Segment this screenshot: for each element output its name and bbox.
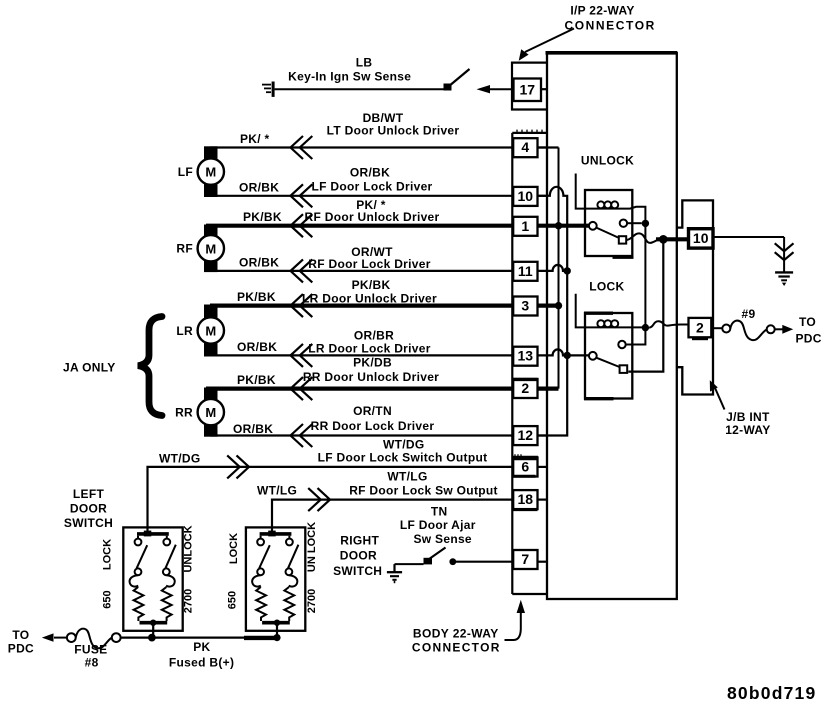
- chevrons wire pin11: [291, 259, 313, 282]
- svg-text:LT Door Unlock Driver: LT Door Unlock Driver: [327, 124, 460, 138]
- chevrons wire pin12: [291, 424, 313, 447]
- chevrons wire pin4: [291, 136, 313, 159]
- svg-text:WT/LG: WT/LG: [257, 484, 297, 498]
- right unlock hook: [289, 575, 298, 586]
- ground symbol door ajar: [387, 564, 402, 583]
- chevrons wire pin3: [291, 294, 313, 317]
- fuse #9: [730, 321, 766, 341]
- node LOCK coil junction: [642, 324, 649, 331]
- svg-text:650: 650: [227, 591, 239, 609]
- right door switch box: [246, 527, 305, 630]
- FUSE #8 label: [74, 643, 107, 670]
- svg-text:RF Door Unlock Driver: RF Door Unlock Driver: [305, 210, 440, 224]
- chevrons wire pin13: [291, 344, 313, 367]
- svg-text:TN: TN: [431, 505, 448, 519]
- pin box 2: [513, 379, 538, 398]
- svg-text:TO: TO: [799, 315, 816, 329]
- J/B pin box 2: [689, 318, 712, 339]
- right switch bottom bar: [262, 620, 290, 638]
- LEFT DOOR SWITCH label: [64, 487, 113, 530]
- svg-text:17: 17: [520, 81, 536, 97]
- chevrons wire pin10: [291, 184, 313, 207]
- fused B+ bottom wire: [121, 634, 281, 642]
- fuse #9 connector circle: [722, 325, 730, 333]
- svg-text:OR/BK: OR/BK: [239, 180, 279, 194]
- chevrons wire pin6: [227, 455, 249, 478]
- svg-text:6: 6: [521, 459, 529, 475]
- node pin3 on unlock bus: [555, 302, 562, 309]
- svg-text:2700: 2700: [306, 589, 318, 613]
- svg-text:PDC: PDC: [795, 332, 821, 346]
- resistor 2700 left: [162, 587, 172, 621]
- I/P 22-WAY CONNECTOR label: [564, 4, 656, 33]
- svg-text:TO: TO: [12, 628, 29, 642]
- J/B INT connector outline: [677, 200, 713, 394]
- svg-text:UNLOCK: UNLOCK: [581, 154, 634, 168]
- node pin1 on unlock bus: [555, 222, 562, 229]
- wire pin3 LR door unlock (thick): [210, 304, 513, 308]
- svg-text:PDC: PDC: [8, 642, 34, 656]
- J/B INT 12-WAY label: [725, 410, 770, 437]
- resistor 650 left: [134, 587, 144, 621]
- UNLOCK lever: [596, 228, 619, 238]
- UNLOCK upper contact: [620, 220, 642, 227]
- svg-text:I/P 22-WAY: I/P 22-WAY: [570, 4, 634, 18]
- svg-text:WT/DG: WT/DG: [159, 452, 201, 466]
- svg-text:OR/BK: OR/BK: [233, 422, 273, 436]
- arrow to PDC left: [42, 633, 67, 641]
- left tab column for pins 4-12: [512, 130, 547, 594]
- svg-text:LR: LR: [176, 324, 193, 338]
- fuse #8: [76, 629, 112, 648]
- svg-text:11: 11: [518, 263, 533, 279]
- wire pin18 RF door lock sw output: [272, 500, 513, 531]
- key-in wire end symbol: [262, 82, 275, 97]
- chevrons wire pin2: [291, 377, 313, 400]
- left lock lever: [137, 545, 148, 568]
- ground symbol right: [775, 237, 794, 286]
- pin box 13: [513, 347, 537, 366]
- svg-text:LOCK: LOCK: [589, 279, 624, 293]
- node pin13 on lock bus: [564, 352, 571, 359]
- pin box 17: [514, 79, 548, 102]
- right unlock lower contact: [286, 568, 293, 575]
- UNLOCK relay box: [585, 190, 634, 257]
- svg-text:SWITCH: SWITCH: [333, 564, 382, 578]
- pin box 4: [513, 138, 537, 157]
- right switch lock contact: [257, 539, 264, 546]
- resistor 2700 right: [284, 587, 294, 621]
- svg-text:Key-In Ign Sw Sense: Key-In Ign Sw Sense: [288, 70, 411, 84]
- wire pin6 LF door lock switch output: [148, 467, 514, 531]
- svg-text:10: 10: [693, 230, 709, 246]
- left lock lower contact: [135, 568, 142, 575]
- svg-text:RR Door Unlock Driver: RR Door Unlock Driver: [303, 370, 439, 384]
- svg-text:RF: RF: [176, 242, 193, 256]
- wire pin2 RR door unlock (thick): [206, 387, 513, 391]
- svg-text:PK/BK: PK/BK: [243, 210, 282, 224]
- svg-text:RIGHT: RIGHT: [340, 534, 379, 548]
- right switch top bar: [260, 531, 292, 539]
- right switch unlock contact: [286, 539, 293, 546]
- vertical wire junction to LOCK upper contact: [626, 222, 646, 345]
- pin 17 tab: [512, 63, 547, 110]
- svg-text:BODY 22-WAY: BODY 22-WAY: [413, 626, 499, 640]
- svg-text:M: M: [205, 241, 216, 256]
- svg-text:Sw Sense: Sw Sense: [413, 532, 471, 546]
- TN LF Door Ajar Sw Sense label: [400, 505, 476, 547]
- pin box 6: [513, 454, 538, 476]
- pin stubs to body edge: [538, 148, 548, 562]
- door ajar switch: [395, 548, 446, 565]
- svg-text:650: 650: [102, 590, 114, 608]
- TO PDC label left: [8, 628, 34, 656]
- svg-text:LOCK: LOCK: [102, 539, 114, 570]
- svg-text:LF Door Lock Switch Output: LF Door Lock Switch Output: [318, 450, 488, 464]
- pin box 12: [513, 426, 537, 445]
- svg-text:PK/BK: PK/BK: [237, 290, 276, 304]
- svg-text:PK/BK: PK/BK: [352, 278, 391, 292]
- svg-text:M: M: [205, 405, 216, 420]
- svg-text:PK/ *: PK/ *: [240, 132, 270, 146]
- left unlock lever: [165, 545, 175, 569]
- svg-text:RR Door Lock Driver: RR Door Lock Driver: [311, 419, 435, 433]
- svg-text:LF Door Ajar: LF Door Ajar: [400, 518, 476, 532]
- svg-text:10: 10: [518, 188, 534, 204]
- key-in wire: [275, 88, 444, 90]
- left switch lock contact: [135, 539, 142, 546]
- LOCK relay box: [584, 313, 632, 399]
- pin box 7: [513, 550, 537, 569]
- node output junction: [659, 235, 668, 244]
- wire to pin 7: [453, 561, 513, 563]
- svg-text:LOCK: LOCK: [228, 533, 240, 564]
- TO PDC label right: [795, 315, 821, 346]
- motor LF: [178, 146, 224, 197]
- wire pin3 inside body (thick): [538, 304, 559, 308]
- fuse right connector circle: [767, 325, 775, 333]
- fuse #8 right circle: [67, 633, 76, 642]
- svg-text:CONNECTOR: CONNECTOR: [564, 19, 656, 33]
- leader arrow to I/P connector: [519, 29, 574, 61]
- svg-text:LEFT: LEFT: [73, 487, 105, 501]
- wire pin12 RR door lock: [210, 434, 513, 436]
- svg-text:FUSE: FUSE: [74, 643, 107, 657]
- svg-text:2: 2: [696, 319, 704, 335]
- motor RR: [175, 388, 224, 437]
- UNLOCK coil stub: [576, 174, 597, 209]
- LOCK upper contact: [618, 341, 625, 348]
- svg-text:18: 18: [518, 491, 534, 507]
- svg-text:WT/LG: WT/LG: [387, 470, 427, 484]
- LOCK lever: [596, 358, 619, 367]
- svg-text:UNLOCK: UNLOCK: [183, 525, 195, 572]
- UNLOCK coil: [597, 201, 645, 220]
- pin box 1: [513, 217, 537, 236]
- wire J/B 10 to ground: [713, 236, 784, 238]
- svg-text:Fused B(+): Fused B(+): [169, 656, 234, 670]
- node door ajar to pin 7: [449, 558, 456, 565]
- JA ONLY brace: [138, 317, 162, 416]
- pin box 11: [513, 262, 537, 281]
- svg-text:OR/BK: OR/BK: [239, 255, 279, 269]
- left door switch box: [123, 527, 182, 630]
- svg-text:JA ONLY: JA ONLY: [63, 361, 116, 375]
- svg-text:OR/BK: OR/BK: [237, 340, 277, 354]
- wire pin10 LF door lock: [210, 195, 513, 197]
- right lock lever: [259, 545, 270, 568]
- wire pin1 RF door unlock (thick): [206, 224, 513, 228]
- chevrons wire pin18: [308, 488, 330, 511]
- svg-text:OR/TN: OR/TN: [353, 404, 392, 418]
- svg-text:PK/DB: PK/DB: [353, 356, 392, 370]
- UNLOCK lower contact: [619, 236, 626, 243]
- lock bus pin10 to pin12 with hop over unlock bus: [538, 187, 568, 436]
- wavy wire LOCK coil to J/B pin 2: [649, 321, 688, 327]
- motor LR: [176, 305, 224, 357]
- UNLOCK pivot: [589, 222, 597, 230]
- wavy wire lower contact to output node: [626, 233, 660, 242]
- right lock hook: [252, 575, 261, 586]
- LOCK pivot: [589, 352, 597, 360]
- svg-text:DOOR: DOOR: [70, 502, 107, 516]
- svg-text:OR/BK: OR/BK: [350, 166, 390, 180]
- svg-text:SWITCH: SWITCH: [64, 516, 113, 530]
- wire pin11 RF door lock: [206, 270, 513, 272]
- thick wire to J/B pin 10: [656, 237, 689, 241]
- pin box 10: [513, 187, 537, 206]
- LOCK lower contact: [620, 365, 628, 373]
- svg-text:LR Door Lock Driver: LR Door Lock Driver: [308, 341, 430, 355]
- PK Fused B(+) label: [169, 640, 234, 670]
- wire pin1 to UNLOCK pivot (thick): [538, 224, 590, 228]
- svg-text:J/B INT: J/B INT: [726, 410, 770, 424]
- wire J/B 2 to fuse: [711, 327, 722, 329]
- key-in ign sw sense labels: [288, 56, 411, 84]
- svg-text:PK: PK: [193, 640, 210, 654]
- svg-text:LB: LB: [356, 56, 373, 70]
- svg-text:12: 12: [518, 427, 534, 443]
- chevrons wire pin1: [291, 214, 313, 237]
- LOCK coil: [597, 320, 645, 327]
- svg-text:13: 13: [518, 348, 534, 364]
- vertical wire output node to LOCK lower contact: [628, 239, 663, 371]
- left switch unlock contact: [163, 539, 170, 546]
- svg-text:UN LOCK: UN LOCK: [306, 522, 318, 572]
- svg-text:PK/BK: PK/BK: [237, 373, 276, 387]
- node coil/contact junction: [642, 220, 649, 227]
- svg-text:80b0d719: 80b0d719: [727, 683, 816, 703]
- key-in switch lever: [444, 69, 470, 91]
- BODY 22-WAY CONNECTOR label: [412, 626, 501, 654]
- LOCK coil stub: [576, 294, 597, 328]
- svg-text:1: 1: [521, 218, 529, 234]
- arrow to PDC right: [775, 325, 794, 334]
- left switch bottom bar: [140, 620, 168, 638]
- wire pin13 LR door lock: [210, 354, 513, 356]
- svg-text:RR: RR: [175, 406, 193, 420]
- svg-text:7: 7: [521, 551, 529, 567]
- fuse #8 left circle: [112, 633, 121, 642]
- pin box 3: [513, 297, 537, 316]
- svg-text:2: 2: [521, 380, 529, 396]
- svg-text:3: 3: [521, 298, 529, 314]
- svg-text:LR Door Unlock Driver: LR Door Unlock Driver: [302, 292, 437, 306]
- svg-text:RF Door Lock Sw Output: RF Door Lock Sw Output: [349, 484, 498, 498]
- node pin11 on lock bus: [564, 267, 571, 274]
- svg-text:M: M: [205, 165, 216, 180]
- svg-text:CONNECTOR: CONNECTOR: [412, 641, 501, 655]
- left lock hook: [130, 575, 139, 586]
- J/B pin box 10: [689, 229, 714, 248]
- svg-text:DOOR: DOOR: [340, 549, 377, 563]
- svg-text:12-WAY: 12-WAY: [725, 423, 770, 437]
- RIGHT DOOR SWITCH label: [333, 534, 382, 579]
- svg-text:RF Door Lock Driver: RF Door Lock Driver: [308, 257, 430, 271]
- wire pin4 LT door unlock: [210, 146, 513, 148]
- leader arrow to body connector: [505, 600, 526, 640]
- svg-text:2700: 2700: [183, 589, 195, 613]
- motor RF: [176, 225, 224, 273]
- unlock bus pin4 to pin2: [538, 148, 559, 389]
- wire pin11 with hop, to lock bus: [538, 265, 568, 271]
- resistor 650 right: [256, 587, 266, 621]
- leader arrow to J/B: [710, 380, 725, 409]
- BCM body rectangle: [546, 53, 678, 599]
- svg-text:#9: #9: [742, 307, 756, 321]
- svg-text:LF: LF: [178, 165, 193, 179]
- svg-text:LF Door Lock Driver: LF Door Lock Driver: [311, 180, 432, 194]
- wire pin13 with hop, to LOCK pivot: [538, 349, 590, 355]
- svg-text:#8: #8: [85, 656, 99, 670]
- arrow into pin 17: [477, 85, 514, 93]
- pin box 18: [512, 490, 537, 510]
- left unlock hook: [166, 575, 175, 586]
- left unlock lower contact: [163, 568, 170, 575]
- svg-text:M: M: [205, 324, 216, 339]
- right lock lower contact: [257, 568, 264, 575]
- right unlock lever: [288, 545, 298, 569]
- svg-text:4: 4: [521, 139, 529, 155]
- left switch top bar: [137, 531, 169, 539]
